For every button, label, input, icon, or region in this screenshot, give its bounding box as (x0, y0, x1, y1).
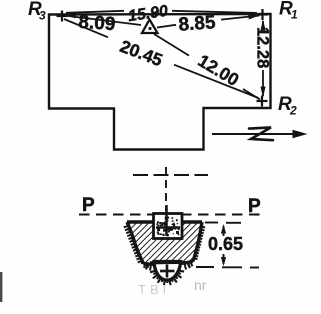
dimension line 8.85 (triangle to R1 cross) (157, 16, 260, 28)
north arrow line (212, 133, 303, 135)
survey cross inside pot (166, 265, 169, 278)
dashed horizontal tick line above section (133, 174, 208, 176)
survey cross mark R2 (257, 96, 268, 107)
dimension line 8.09 (R3 cross to triangle) (65, 16, 142, 26)
label R3 (28, 0, 46, 23)
svg-text:P: P (82, 195, 95, 216)
svg-text:8.85: 8.85 (178, 12, 217, 36)
dimension line 0.65 (vertical with arrows) (223, 226, 225, 264)
P-P dashed section line (79, 213, 266, 215)
dimension line 20.45 (R3 cross to R2 cross) (64, 19, 259, 98)
pit hatched fill (120, 215, 210, 270)
plan outline (stepped polygon) (49, 14, 271, 150)
svg-text:12.28: 12.28 (254, 27, 272, 68)
pot rim top band (150, 261, 185, 265)
pit bottom reinforcement (141, 261, 193, 265)
dimension line 15.90 (R3 to R1) (66, 11, 257, 13)
cross inside balk (165, 205, 168, 236)
pot at pit bottom (white bowl, dark rim) (154, 262, 181, 281)
svg-text:nr: nr (194, 277, 207, 293)
pot fringe ticks (150, 270, 184, 285)
pit wall ticks (right) (194, 226, 205, 259)
triangle station symbol (142, 20, 158, 34)
svg-text:0.65: 0.65 (208, 234, 243, 254)
faint print-through text at bottom (138, 277, 207, 297)
dashed vertical centerline (section) (165, 167, 167, 211)
dimension 0.65 extension dashes (top) (205, 222, 241, 224)
svg-text:1: 1 (291, 8, 298, 22)
label R2 (278, 94, 297, 118)
side scallop marks beside pot (146, 263, 190, 271)
north Z glyph (249, 127, 273, 140)
pit bottom ticks (144, 263, 192, 268)
survey cross mark R3 (57, 11, 68, 22)
svg-text:3: 3 (39, 9, 46, 23)
label R1 (279, 0, 298, 22)
balk rectangle with speckles (154, 214, 183, 239)
dimension line 12.00 (triangle to R2 cross) (154, 34, 260, 100)
svg-text:2: 2 (289, 104, 297, 118)
north arrowhead (293, 130, 308, 139)
dimension line 12.28 (R1 cross to R2 cross, vertical) (262, 21, 264, 96)
survey cross mark R1 (257, 9, 268, 20)
svg-text:P: P (248, 196, 261, 217)
svg-text:TBI: TBI (138, 282, 170, 297)
pit wall ticks (left) (124, 226, 141, 262)
pit outline (jagged walls) (127, 222, 202, 265)
dimension 0.65 extension dashes (bottom) (196, 266, 259, 269)
scan edge artifact (left margin) (0, 272, 2, 302)
